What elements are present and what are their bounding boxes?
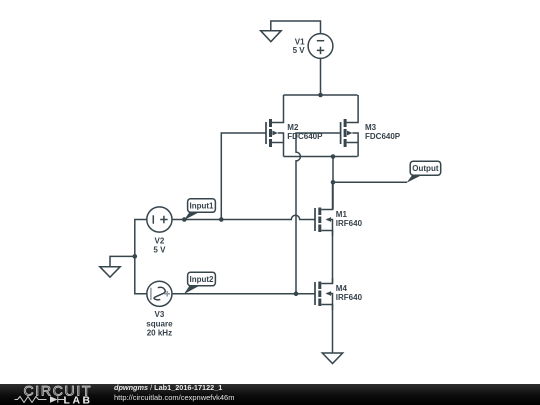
svg-text:20 kHz: 20 kHz xyxy=(147,329,172,338)
ground GND2 (bottom) xyxy=(322,353,342,364)
svg-text:square: square xyxy=(146,319,173,328)
voltage source V2 xyxy=(147,207,172,232)
node output T xyxy=(331,180,336,185)
wire V3 right to M4 gate xyxy=(172,293,315,295)
voltage source V1 xyxy=(308,34,333,59)
node ground branch xyxy=(133,254,138,259)
svg-text:Output: Output xyxy=(412,164,439,173)
ground GND1 (top, V1 negative) xyxy=(261,31,282,42)
node V1 to rail xyxy=(318,93,323,98)
wire V1 bottom xyxy=(320,58,322,95)
label V3 square 20 kHz xyxy=(146,310,173,338)
wire V2 right to M1 gate (hop over M3 gate wire) xyxy=(172,215,315,219)
svg-text:5 V: 5 V xyxy=(293,46,306,55)
node M2 gate branch xyxy=(219,217,224,222)
transistor M2 xyxy=(266,95,284,157)
svg-text:5 V: 5 V xyxy=(153,246,166,255)
wire V2 left down to V3 left xyxy=(135,220,147,294)
voltage source V3 xyxy=(147,281,172,306)
svg-text:M1: M1 xyxy=(336,210,348,219)
logo resistor-diode glyph xyxy=(15,396,65,403)
transistor M3 xyxy=(341,95,359,157)
svg-text:V3: V3 xyxy=(155,310,165,319)
label M3 FDC640P xyxy=(365,123,401,141)
flag Input2 xyxy=(184,272,216,294)
wire source rail (M2/M3 sources) xyxy=(284,156,358,158)
label V2 5 V xyxy=(153,237,166,255)
label M2 FDC640P xyxy=(287,123,323,141)
flag Input1 xyxy=(184,199,215,220)
footer url xyxy=(114,394,234,403)
svg-text:M2: M2 xyxy=(287,123,299,132)
svg-text:M3: M3 xyxy=(365,123,377,132)
svg-text:Input2: Input2 xyxy=(190,275,215,284)
wire M4 source to ground xyxy=(332,305,334,354)
svg-text:IRF640: IRF640 xyxy=(336,293,363,302)
ground GND3 (left) xyxy=(100,267,120,278)
svg-text:V2: V2 xyxy=(155,237,165,246)
svg-text:M4: M4 xyxy=(336,284,348,293)
svg-text:IRF640: IRF640 xyxy=(336,219,363,228)
svg-text:LAB: LAB xyxy=(64,396,93,405)
flag Output xyxy=(407,161,441,183)
wire output drop xyxy=(332,157,334,210)
transistor M4 xyxy=(315,278,333,310)
svg-text:FDC640P: FDC640P xyxy=(365,132,401,141)
wire V1 top to ground xyxy=(271,21,321,34)
wire to left ground xyxy=(110,256,135,266)
node Input1 tap xyxy=(182,217,187,222)
node source rail to output drop xyxy=(331,154,336,159)
node M3 gate junction xyxy=(294,291,299,296)
wire M3 gate down to Input2 net (hop over rail) xyxy=(296,133,341,294)
footer bar xyxy=(0,384,540,405)
wire M2 gate to Input1 net xyxy=(221,133,266,220)
wire to Output flag xyxy=(333,181,407,183)
wire top rail xyxy=(284,94,358,96)
wire M1 source to M4 drain xyxy=(332,231,334,284)
label M1 IRF640 xyxy=(336,210,363,228)
transistor M1 xyxy=(315,182,333,236)
label V1 5 V xyxy=(293,37,306,55)
svg-text:Input1: Input1 xyxy=(190,202,215,211)
label M4 IRF640 xyxy=(336,284,363,302)
footer title xyxy=(114,384,222,393)
